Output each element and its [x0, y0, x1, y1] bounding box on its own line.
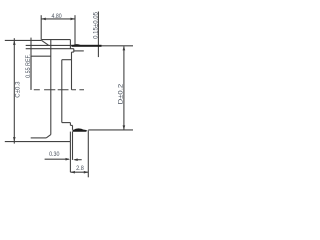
bottom step v2 [72, 125, 74, 129]
4.80 dim line [41, 18, 75, 20]
bottom step h2 [70, 124, 72, 126]
4.80 left arrow [41, 18, 46, 21]
svg-text:4.80: 4.80 [52, 14, 63, 21]
4.80 right arrow [71, 18, 76, 21]
bottom-left lead curve [46, 135, 51, 138]
svg-text:0.55 REF.: 0.55 REF. [26, 54, 32, 78]
0.30 leader [45, 158, 69, 160]
texts [15, 12, 125, 172]
D top arrow [123, 46, 126, 51]
4.80 ext left [40, 15, 42, 39]
body top edge [41, 39, 70, 41]
step horizontal [72, 51, 74, 53]
0.55 REF vertical line [30, 38, 32, 90]
0.55 REF lower part [30, 56, 32, 90]
0.30 right tick [75, 159, 82, 161]
small line right of step [74, 50, 84, 52]
0.30 opposing arrow [73, 158, 78, 161]
step right vertical [73, 49, 75, 52]
C top arrow [13, 40, 16, 45]
ext C [87, 131, 89, 178]
svg-text:D±0.2: D±0.2 [117, 84, 124, 105]
svg-text:2.8: 2.8 [76, 166, 84, 172]
seating plane line [5, 141, 71, 143]
C bottom arrow [13, 137, 16, 142]
svg-text:0.15±0.05: 0.15±0.05 [92, 12, 99, 39]
D dim line [123, 46, 125, 129]
solder bump on top bar [73, 43, 80, 46]
chamfer top-left [41, 40, 48, 45]
arrows [13, 18, 125, 174]
D bottom ext [88, 129, 133, 131]
lead bottom line [26, 48, 74, 50]
2.8 left arrow [70, 171, 75, 174]
svg-text:0.30: 0.30 [49, 152, 60, 159]
inner corner horizontal [62, 59, 72, 61]
bottom-left lead line [31, 137, 47, 139]
bottom step h1 [62, 122, 71, 124]
ext A below lead tip [69, 142, 71, 173]
C dim line [13, 38, 15, 143]
centerline dash-dot [34, 89, 84, 91]
body right edge upper [69, 40, 71, 49]
0.15 vertical line [97, 12, 99, 58]
svg-text:C±0.3: C±0.3 [15, 81, 22, 98]
long inner vertical [50, 40, 52, 135]
4.80 ext right [74, 15, 76, 44]
lead top line [26, 44, 72, 46]
thick lead bar top [72, 45, 102, 47]
inner vertical [61, 60, 63, 123]
top extension line (C) [5, 39, 42, 41]
body outer right vertical [71, 52, 73, 90]
0.30 arrow [66, 158, 71, 161]
foot bar [73, 130, 88, 132]
2.8 right arrow [84, 171, 89, 174]
bottom step v1 [69, 123, 71, 126]
bump on foot [73, 128, 84, 130]
lead tip vertical below foot [69, 132, 71, 142]
2.8 dim line [70, 171, 88, 173]
horizontal at y56 [31, 55, 51, 57]
D top ext [102, 45, 134, 47]
ext B [72, 132, 74, 160]
D bottom arrow [123, 125, 126, 130]
